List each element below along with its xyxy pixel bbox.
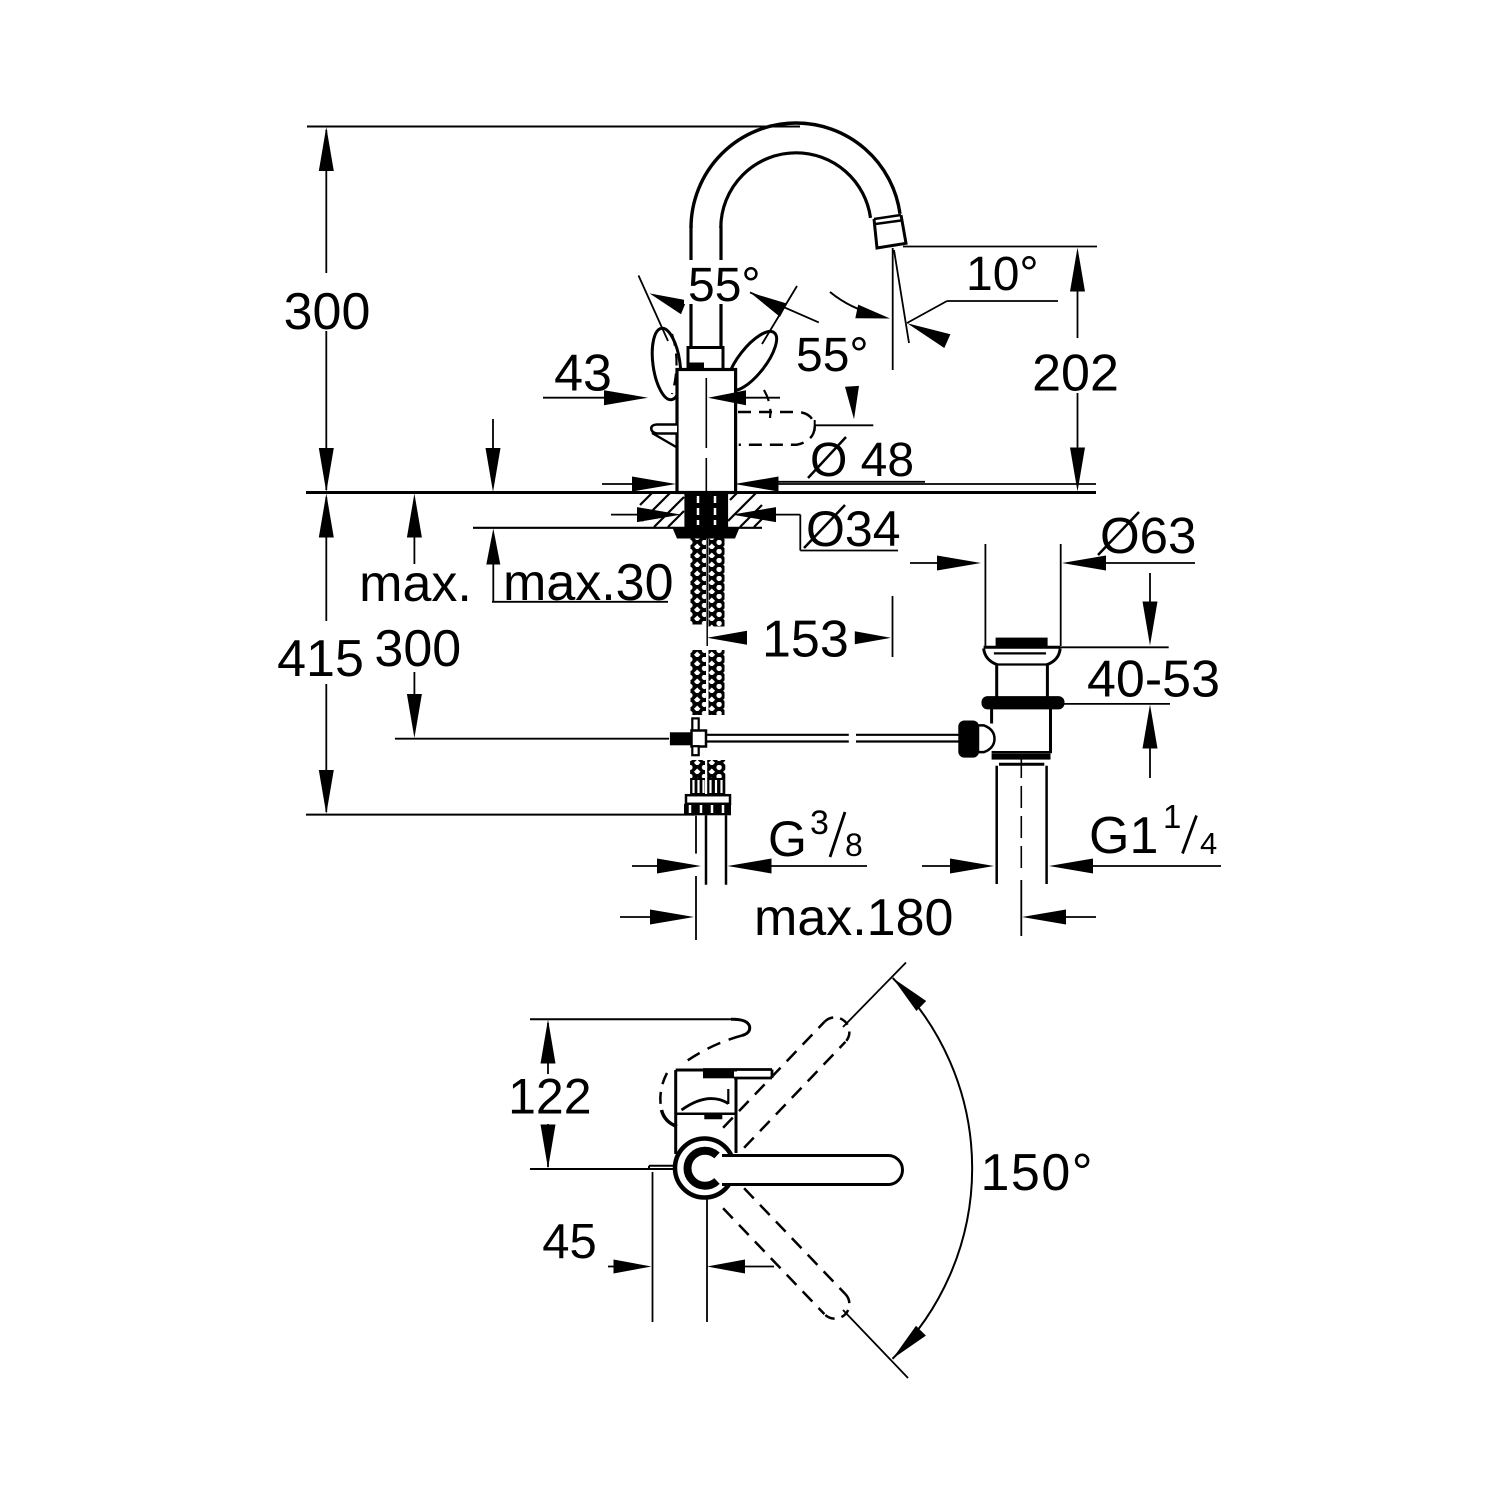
plan lever paddle hook tip bbox=[731, 1019, 750, 1035]
dimension G3/8 bbox=[632, 865, 659, 867]
svg-text:122: 122 bbox=[508, 1069, 591, 1125]
svg-text:O34: O34 bbox=[806, 501, 901, 557]
drain flange bbox=[984, 646, 1061, 649]
connector collar bbox=[686, 795, 730, 804]
svg-text:202: 202 bbox=[1032, 345, 1119, 403]
spout tip mousseur bbox=[874, 215, 906, 248]
braided hoses lower segment bbox=[691, 650, 707, 715]
plan top reference line bbox=[530, 1018, 731, 1020]
svg-text:max.180: max.180 bbox=[754, 889, 953, 947]
dimension 415 vertical with arrows bbox=[319, 494, 334, 538]
dimension 300: top reference line bbox=[307, 126, 800, 128]
plan bottom reference line bbox=[530, 1168, 676, 1170]
plan spout swung up dashed bbox=[723, 1022, 824, 1128]
plan lever bar bbox=[703, 1068, 772, 1071]
pop-up rod reference line bbox=[395, 738, 669, 740]
countertop hatching left of shank bbox=[642, 493, 670, 521]
dimension max.180 bbox=[620, 916, 652, 918]
plan left tab bbox=[649, 1165, 676, 1167]
svg-text:55°: 55° bbox=[796, 329, 869, 382]
svg-text:153: 153 bbox=[762, 611, 849, 669]
swivel 150deg arc bbox=[893, 978, 973, 1359]
drain side knob for rod bbox=[959, 722, 978, 757]
dimension 122 bbox=[541, 1020, 556, 1064]
svg-text:40-53: 40-53 bbox=[1087, 651, 1220, 709]
svg-text:3: 3 bbox=[810, 804, 829, 842]
plan pivot outer circle bbox=[675, 1139, 734, 1198]
plan spout swung down dashed bbox=[723, 1208, 824, 1314]
drain plug cap bbox=[996, 638, 1048, 647]
water stream lines bbox=[892, 248, 894, 370]
plan paddle end hook bbox=[662, 1110, 678, 1127]
dimension 202 bbox=[1070, 248, 1085, 292]
svg-text:O63: O63 bbox=[1100, 507, 1196, 564]
countertop hatching right of shank bbox=[728, 493, 756, 521]
svg-text:1: 1 bbox=[1163, 798, 1181, 835]
plan faucet body square bbox=[676, 1069, 737, 1072]
rod coupler above tee bbox=[692, 718, 698, 731]
svg-text:G1: G1 bbox=[1089, 807, 1158, 865]
spout outlet tab left of body bbox=[651, 425, 677, 434]
svg-text:300: 300 bbox=[284, 283, 371, 341]
lower connector ribbed bbox=[690, 778, 705, 795]
spout riser pipe walls bbox=[689, 226, 692, 348]
dimension 45 bbox=[608, 1266, 614, 1268]
svg-text:43: 43 bbox=[554, 345, 612, 403]
dimension 40-53 bbox=[1149, 573, 1151, 603]
dimension max.300 vertical with arrows bbox=[407, 494, 422, 538]
dimension D48 bbox=[602, 483, 634, 485]
mounting nut bbox=[673, 528, 740, 539]
dimension G1 1/4 bbox=[922, 865, 952, 867]
lever open-position capsule bbox=[719, 324, 785, 397]
swivel angle leg upper bbox=[843, 963, 906, 1028]
braided hoses upper segment bbox=[691, 539, 707, 625]
body centerline bbox=[705, 378, 707, 448]
connector base nut bbox=[684, 804, 731, 816]
dimension 153 bbox=[707, 631, 747, 645]
svg-text:415: 415 bbox=[277, 630, 364, 688]
lower hose check valves bbox=[690, 760, 705, 778]
plan paddle inner dashed edge bbox=[681, 1036, 742, 1066]
plan pivot inner C ring bbox=[688, 1151, 717, 1186]
angular dimension 55deg lever opening bbox=[639, 276, 669, 342]
dimension D63 bbox=[910, 562, 939, 564]
plan body dome arc bbox=[682, 1099, 729, 1110]
plan body hinge seam bbox=[704, 1115, 722, 1120]
svg-text:45: 45 bbox=[542, 1215, 597, 1269]
plan spout stadium solid bbox=[722, 1156, 903, 1185]
swivel angle leg lower bbox=[843, 1310, 908, 1378]
supply pipe walls bbox=[705, 815, 708, 884]
dimension max.30 arrows and leader bbox=[492, 419, 494, 449]
label 55deg first (with mask) bbox=[684, 260, 774, 304]
drain tailpipe bbox=[995, 766, 998, 884]
countertop underside line bbox=[473, 527, 762, 529]
svg-text:G: G bbox=[768, 811, 807, 867]
lever front-projection dashed capsule bbox=[738, 412, 815, 445]
dimension D34 with leader bbox=[611, 514, 639, 516]
mixer body bbox=[677, 370, 736, 493]
drain centerline dashed bbox=[1020, 756, 1022, 875]
countertop deck line bbox=[306, 491, 1096, 494]
horizontal pop-up rod bbox=[706, 734, 849, 736]
dimension 415 bottom reference line bbox=[306, 814, 695, 816]
lever closed-position capsule bbox=[648, 326, 685, 401]
svg-text:max.: max. bbox=[359, 555, 472, 613]
rod coupler below tee bbox=[692, 746, 698, 755]
svg-text:4: 4 bbox=[1200, 826, 1217, 861]
drain o-ring seal bbox=[983, 697, 1064, 708]
svg-text:8: 8 bbox=[845, 827, 863, 863]
pop-up rod tee junction bbox=[670, 732, 692, 745]
plan body divider line bbox=[676, 1113, 736, 1116]
threaded shank below deck bbox=[684, 493, 728, 527]
svg-text:max.30: max.30 bbox=[503, 554, 674, 612]
hose centerline bbox=[706, 532, 708, 646]
dimension 300 vertical with arrows bbox=[319, 127, 334, 171]
svg-text:55°: 55° bbox=[688, 259, 761, 312]
mixer neck collar bbox=[688, 348, 723, 370]
drain body bbox=[990, 708, 993, 723]
spout arc inner bbox=[721, 153, 871, 228]
svg-text:10°: 10° bbox=[966, 248, 1039, 301]
plan paddle left dashed arc bbox=[660, 1073, 667, 1110]
svg-text:150°: 150° bbox=[981, 1144, 1095, 1202]
svg-text:300: 300 bbox=[374, 620, 461, 678]
spout arc outer bbox=[691, 123, 900, 228]
